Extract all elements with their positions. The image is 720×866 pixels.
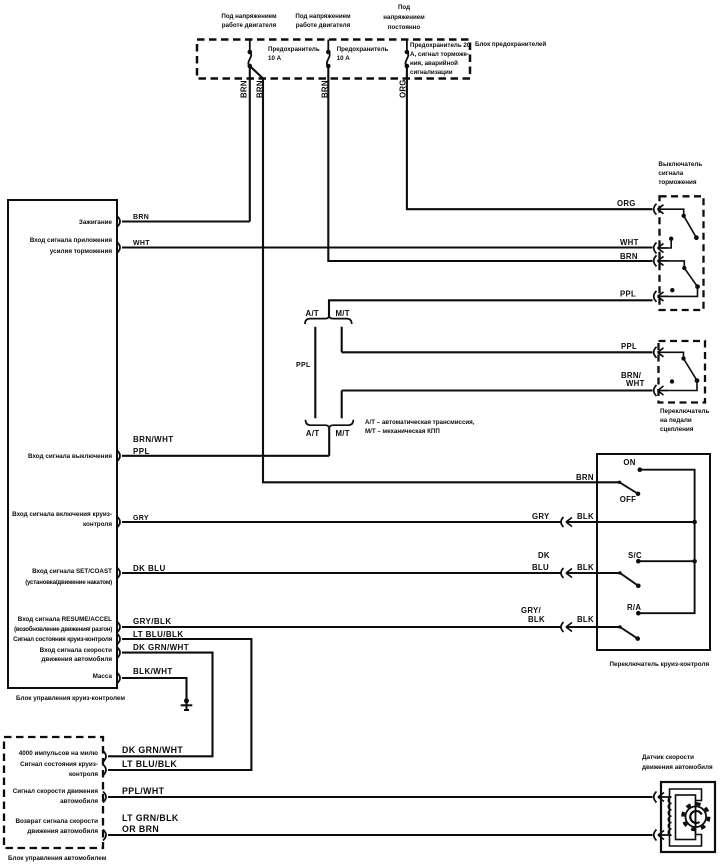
svg-text:DK BLU: DK BLU bbox=[133, 564, 166, 573]
svg-text:DK GRN/WHT: DK GRN/WHT bbox=[133, 643, 189, 652]
svg-text:Под напряжением: Под напряжением bbox=[221, 13, 277, 20]
svg-text:M/T: M/T bbox=[336, 309, 350, 318]
svg-text:LT BLU/BLK: LT BLU/BLK bbox=[133, 630, 184, 639]
svg-text:Сигнал состояния круиз-: Сигнал состояния круиз- bbox=[20, 761, 98, 768]
svg-text:Вход сигнала приложения: Вход сигнала приложения bbox=[30, 237, 113, 244]
svg-text:Блок управления автомобилем: Блок управления автомобилем bbox=[8, 854, 107, 862]
svg-text:PPL: PPL bbox=[296, 362, 311, 369]
svg-text:PPL: PPL bbox=[620, 290, 636, 299]
svg-text:BRN: BRN bbox=[133, 214, 149, 221]
svg-text:Блок предохранителей: Блок предохранителей bbox=[475, 41, 546, 48]
svg-text:сигнала: сигнала bbox=[658, 170, 683, 177]
svg-text:BRN: BRN bbox=[576, 473, 594, 482]
svg-text:Переключатель: Переключатель bbox=[660, 408, 709, 415]
svg-text:Вход сигнала скорости: Вход сигнала скорости bbox=[40, 647, 112, 654]
svg-text:OR BRN: OR BRN bbox=[122, 824, 159, 834]
svg-text:автомобиля: автомобиля bbox=[60, 797, 98, 805]
svg-text:Датчик скорости: Датчик скорости bbox=[642, 754, 694, 761]
svg-text:ния, аварийной: ния, аварийной bbox=[410, 60, 458, 67]
svg-text:А, сигнал торможе-: А, сигнал торможе- bbox=[410, 51, 469, 58]
svg-text:WHT: WHT bbox=[620, 238, 639, 247]
svg-text:A/T: A/T bbox=[306, 309, 319, 318]
svg-text:контроля: контроля bbox=[83, 521, 112, 528]
svg-text:PPL: PPL bbox=[133, 447, 150, 456]
svg-text:BRN: BRN bbox=[240, 80, 249, 98]
svg-text:Выключатель: Выключатель bbox=[658, 161, 702, 168]
svg-text:BLK: BLK bbox=[577, 615, 594, 624]
svg-text:Масса: Масса bbox=[93, 673, 113, 680]
svg-text:усилия торможения: усилия торможения bbox=[50, 248, 113, 255]
svg-text:ON: ON bbox=[623, 458, 635, 467]
svg-text:Переключатель круиз-контроля: Переключатель круиз-контроля bbox=[610, 661, 710, 668]
svg-text:DK GRN/WHT: DK GRN/WHT bbox=[122, 745, 183, 755]
svg-text:10 А: 10 А bbox=[268, 55, 282, 62]
svg-text:WHT: WHT bbox=[133, 240, 150, 247]
svg-text:движения автомобиля: движения автомобиля bbox=[41, 655, 112, 663]
svg-text:(установка/движение накатом): (установка/движение накатом) bbox=[25, 579, 112, 586]
svg-text:BRN/WHT: BRN/WHT bbox=[133, 435, 174, 444]
svg-text:GRY: GRY bbox=[532, 512, 550, 521]
svg-text:BRN: BRN bbox=[620, 252, 638, 261]
svg-text:контроля: контроля bbox=[69, 771, 98, 778]
svg-text:Вход сигнала выключения: Вход сигнала выключения bbox=[28, 453, 112, 460]
svg-text:BLK/WHT: BLK/WHT bbox=[133, 667, 173, 676]
svg-text:Возврат сигнала скорости: Возврат сигнала скорости bbox=[15, 818, 98, 825]
svg-text:OFF: OFF bbox=[620, 495, 637, 504]
svg-text:10 А: 10 А bbox=[337, 55, 351, 62]
svg-text:движения автомобиля: движения автомобиля bbox=[27, 827, 98, 835]
svg-text:BRN: BRN bbox=[256, 80, 265, 98]
svg-text:сигнализации: сигнализации bbox=[410, 69, 453, 76]
svg-text:R/A: R/A bbox=[627, 603, 641, 612]
svg-text:Под: Под bbox=[398, 4, 410, 11]
svg-text:BLU: BLU bbox=[532, 563, 549, 572]
svg-text:S/C: S/C bbox=[628, 551, 642, 560]
svg-text:A/T: A/T bbox=[306, 429, 319, 438]
svg-text:BRN: BRN bbox=[321, 80, 330, 98]
svg-text:ORG: ORG bbox=[617, 199, 636, 208]
svg-text:Вход сигнала включения круиз-: Вход сигнала включения круиз- bbox=[12, 511, 112, 518]
svg-text:Предохранитель 20: Предохранитель 20 bbox=[410, 42, 471, 49]
svg-text:PPL/WHT: PPL/WHT bbox=[122, 786, 165, 796]
svg-text:GRY/BLK: GRY/BLK bbox=[133, 617, 172, 626]
svg-text:А/Т – автоматическая трансмисс: А/Т – автоматическая трансмиссия, bbox=[365, 419, 475, 426]
svg-text:(возобновление движения/ разго: (возобновление движения/ разгон) bbox=[14, 626, 112, 633]
svg-text:WHT: WHT bbox=[626, 379, 645, 388]
svg-text:Вход сигнала RESUME/ACCEL: Вход сигнала RESUME/ACCEL bbox=[18, 616, 112, 623]
svg-text:Под напряжением: Под напряжением bbox=[295, 13, 351, 20]
svg-text:Сигнал состояния круиз-контрол: Сигнал состояния круиз-контроля bbox=[13, 636, 112, 643]
svg-text:DK: DK bbox=[538, 551, 550, 560]
svg-text:Предохранитель: Предохранитель bbox=[337, 46, 389, 53]
svg-text:работе двигателя: работе двигателя bbox=[222, 22, 277, 29]
svg-text:4000 импульсов на милю: 4000 импульсов на милю bbox=[19, 750, 99, 757]
svg-text:Сигнал скорости движения: Сигнал скорости движения bbox=[13, 788, 99, 795]
svg-text:GRY/: GRY/ bbox=[521, 606, 542, 615]
svg-text:Зажигание: Зажигание bbox=[79, 219, 113, 226]
svg-text:торможения: торможения bbox=[658, 179, 697, 186]
svg-text:работе двигателя: работе двигателя bbox=[296, 22, 351, 29]
svg-text:ORG: ORG bbox=[399, 79, 408, 98]
svg-text:напряжением: напряжением bbox=[383, 14, 425, 21]
svg-text:Вход сигнала SET/COAST: Вход сигнала SET/COAST bbox=[32, 568, 112, 575]
svg-text:BLK: BLK bbox=[577, 563, 594, 572]
svg-text:Блок управления круиз-контроле: Блок управления круиз-контролем bbox=[16, 695, 125, 702]
svg-text:BLK: BLK bbox=[577, 512, 594, 521]
svg-text:BLK: BLK bbox=[528, 615, 545, 624]
svg-text:сцепления: сцепления bbox=[660, 426, 694, 433]
svg-text:PPL: PPL bbox=[621, 342, 637, 351]
svg-text:на педали: на педали bbox=[660, 417, 692, 424]
svg-text:GRY: GRY bbox=[133, 515, 149, 522]
svg-text:M/T: M/T bbox=[336, 429, 350, 438]
svg-text:постоянно: постоянно bbox=[388, 24, 421, 31]
svg-text:Предохранитель: Предохранитель bbox=[268, 46, 320, 53]
svg-text:LT BLU/BLK: LT BLU/BLK bbox=[122, 759, 177, 769]
svg-text:LT GRN/BLK: LT GRN/BLK bbox=[122, 813, 179, 823]
svg-text:М/Т – механическая КПП: М/Т – механическая КПП bbox=[365, 428, 440, 435]
svg-text:движения автомобиля: движения автомобиля bbox=[642, 763, 713, 771]
